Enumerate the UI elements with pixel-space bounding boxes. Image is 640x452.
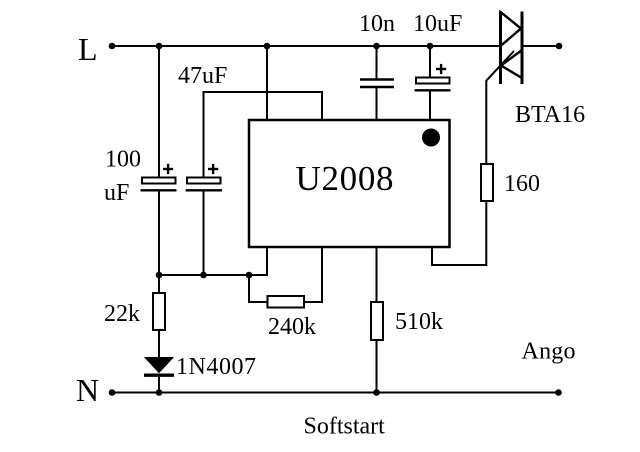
node L-10n junction [373, 43, 380, 50]
diode D 1N4007 [144, 358, 174, 376]
svg-text:BTA16: BTA16 [515, 102, 585, 128]
resistor R 240k [268, 296, 305, 308]
wire 47uF horizontal to pin [203, 91, 324, 93]
svg-text:uF: uF [104, 180, 129, 206]
capacitor C 47uF [186, 178, 222, 191]
node N diode junction [156, 389, 163, 396]
capacitor C 10n [360, 80, 394, 88]
node L endpoint [109, 43, 116, 50]
capacitor C 10uF [415, 78, 451, 91]
svg-text:10uF: 10uF [413, 11, 462, 37]
plus sign 10uF [436, 64, 446, 74]
wire 240k left leg [249, 275, 268, 302]
wire junction row [159, 274, 268, 276]
svg-text:100: 100 [105, 147, 141, 173]
svg-text:22k: 22k [104, 301, 140, 327]
wire 100uF top [158, 46, 160, 179]
wire 240k right leg to pin [304, 247, 322, 303]
wire N rail [112, 392, 559, 394]
svg-text:160: 160 [504, 171, 540, 197]
wire 510k top pin [376, 247, 378, 304]
resistor R 160 [481, 164, 493, 201]
triac Q BTA16 [501, 12, 523, 85]
wire pin5 bottom to junction row [249, 247, 267, 276]
node junction row 100uF [156, 272, 163, 279]
svg-text:Softstart: Softstart [304, 414, 386, 440]
resistor R 22k [153, 293, 165, 330]
wire pin2 top drop [321, 92, 323, 121]
wire diode to N [158, 376, 160, 393]
wire 510k bottom [376, 340, 378, 393]
node N endpoint [109, 389, 116, 396]
wire L rail left [112, 45, 500, 47]
plus sign 47uF [208, 164, 218, 174]
wire 100uF bottom [158, 192, 160, 276]
node junction row 47uF [200, 272, 207, 279]
wire pin8 to 160 bottom [432, 200, 486, 265]
svg-text:47uF: 47uF [178, 63, 227, 89]
node N 510k junction [373, 389, 380, 396]
node N right endpoint [555, 389, 562, 396]
plus sign 100uF [163, 164, 173, 174]
svg-text:1N4007: 1N4007 [176, 354, 256, 380]
node L-10uF junction [427, 43, 434, 50]
node junction row 240k [246, 272, 253, 279]
IC pin1 marker dot [422, 129, 440, 147]
wire L rail right of triac [522, 45, 559, 47]
svg-text:240k: 240k [268, 314, 316, 340]
wire 47uF bottom [203, 192, 205, 276]
svg-text:L: L [78, 31, 98, 67]
svg-text:10n: 10n [359, 11, 395, 37]
svg-text:U2008: U2008 [296, 159, 394, 198]
capacitor C 100uF [141, 178, 177, 191]
wire 22k top [158, 275, 160, 294]
wire triac gate diagonal [486, 51, 514, 81]
svg-text:N: N [76, 372, 99, 408]
svg-text:510k: 510k [395, 309, 443, 335]
node L-pin junction [264, 43, 271, 50]
wire 47uF top riser [203, 92, 205, 179]
wire 10n top [376, 46, 378, 80]
wire 10uF top [429, 46, 431, 78]
svg-text:Ango: Ango [522, 339, 576, 365]
node L-100uF junction [156, 43, 163, 50]
wire pin1 top [266, 46, 268, 121]
node triac right endpoint [556, 43, 563, 50]
wire 10n bottom [376, 87, 378, 121]
resistor R 510k [371, 302, 383, 340]
wire 160 top to gate [485, 81, 487, 166]
wire 22k to diode [158, 330, 160, 358]
wire 10uF bottom [429, 92, 431, 122]
IC U2008 body [249, 120, 450, 247]
